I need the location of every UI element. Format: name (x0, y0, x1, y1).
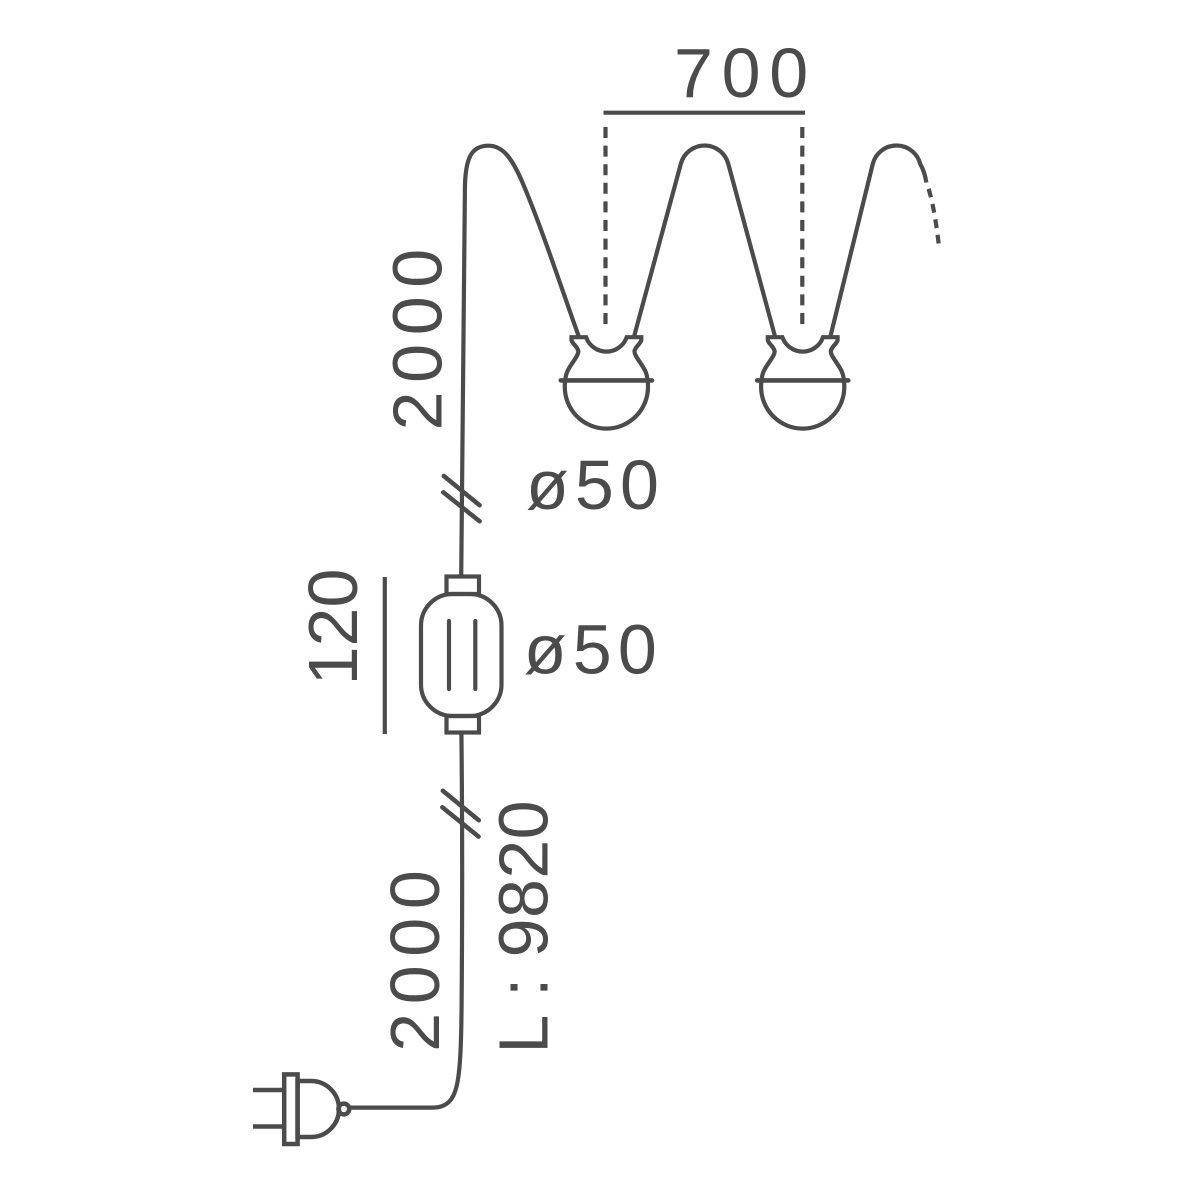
plug: upper prong (253, 1088, 285, 1093)
extension line bulb 2 (dashed) (800, 127, 804, 325)
plug: dome body (298, 1081, 339, 1137)
bulb 2 socket and globe outline (761, 337, 844, 428)
festoon cable: hump 2 (634, 145, 775, 336)
dimension line 120 (383, 577, 387, 734)
bulb 1 divider line (561, 378, 652, 383)
svg-text:700: 700 (674, 34, 817, 112)
plug: lower prong (253, 1124, 285, 1129)
plug: face plate (284, 1074, 297, 1144)
cable break 2 (double slash) (442, 791, 479, 837)
controller capsule: inner line right (473, 621, 477, 689)
svg-text:ø50: ø50 (524, 611, 663, 689)
controller capsule: body (421, 594, 502, 716)
supply cable from capsule to plug (350, 733, 462, 1108)
svg-text:2000: 2000 (376, 862, 454, 1052)
plug: cable gland nub (338, 1104, 349, 1115)
festoon cable: dashed continuation after hump 3 (926, 183, 939, 246)
svg-text:120: 120 (294, 569, 372, 686)
svg-text:2000: 2000 (379, 240, 457, 430)
controller capsule: inner line left (447, 621, 451, 689)
bulb 2 divider line (757, 378, 848, 383)
festoon cable: hump 3 (831, 146, 927, 336)
cable break 1 (double slash) (443, 476, 479, 521)
dimension line 700 (604, 111, 806, 115)
svg-text:L : 9820: L : 9820 (485, 800, 563, 1054)
controller capsule: bottom tab (447, 716, 480, 733)
extension line bulb 1 (dashed) (603, 127, 607, 325)
svg-text:ø50: ø50 (526, 446, 665, 524)
bulb 1 socket and globe outline (565, 337, 648, 428)
festoon cable: main drop and hump 1 (461, 146, 578, 577)
controller capsule: top tab (447, 577, 480, 595)
